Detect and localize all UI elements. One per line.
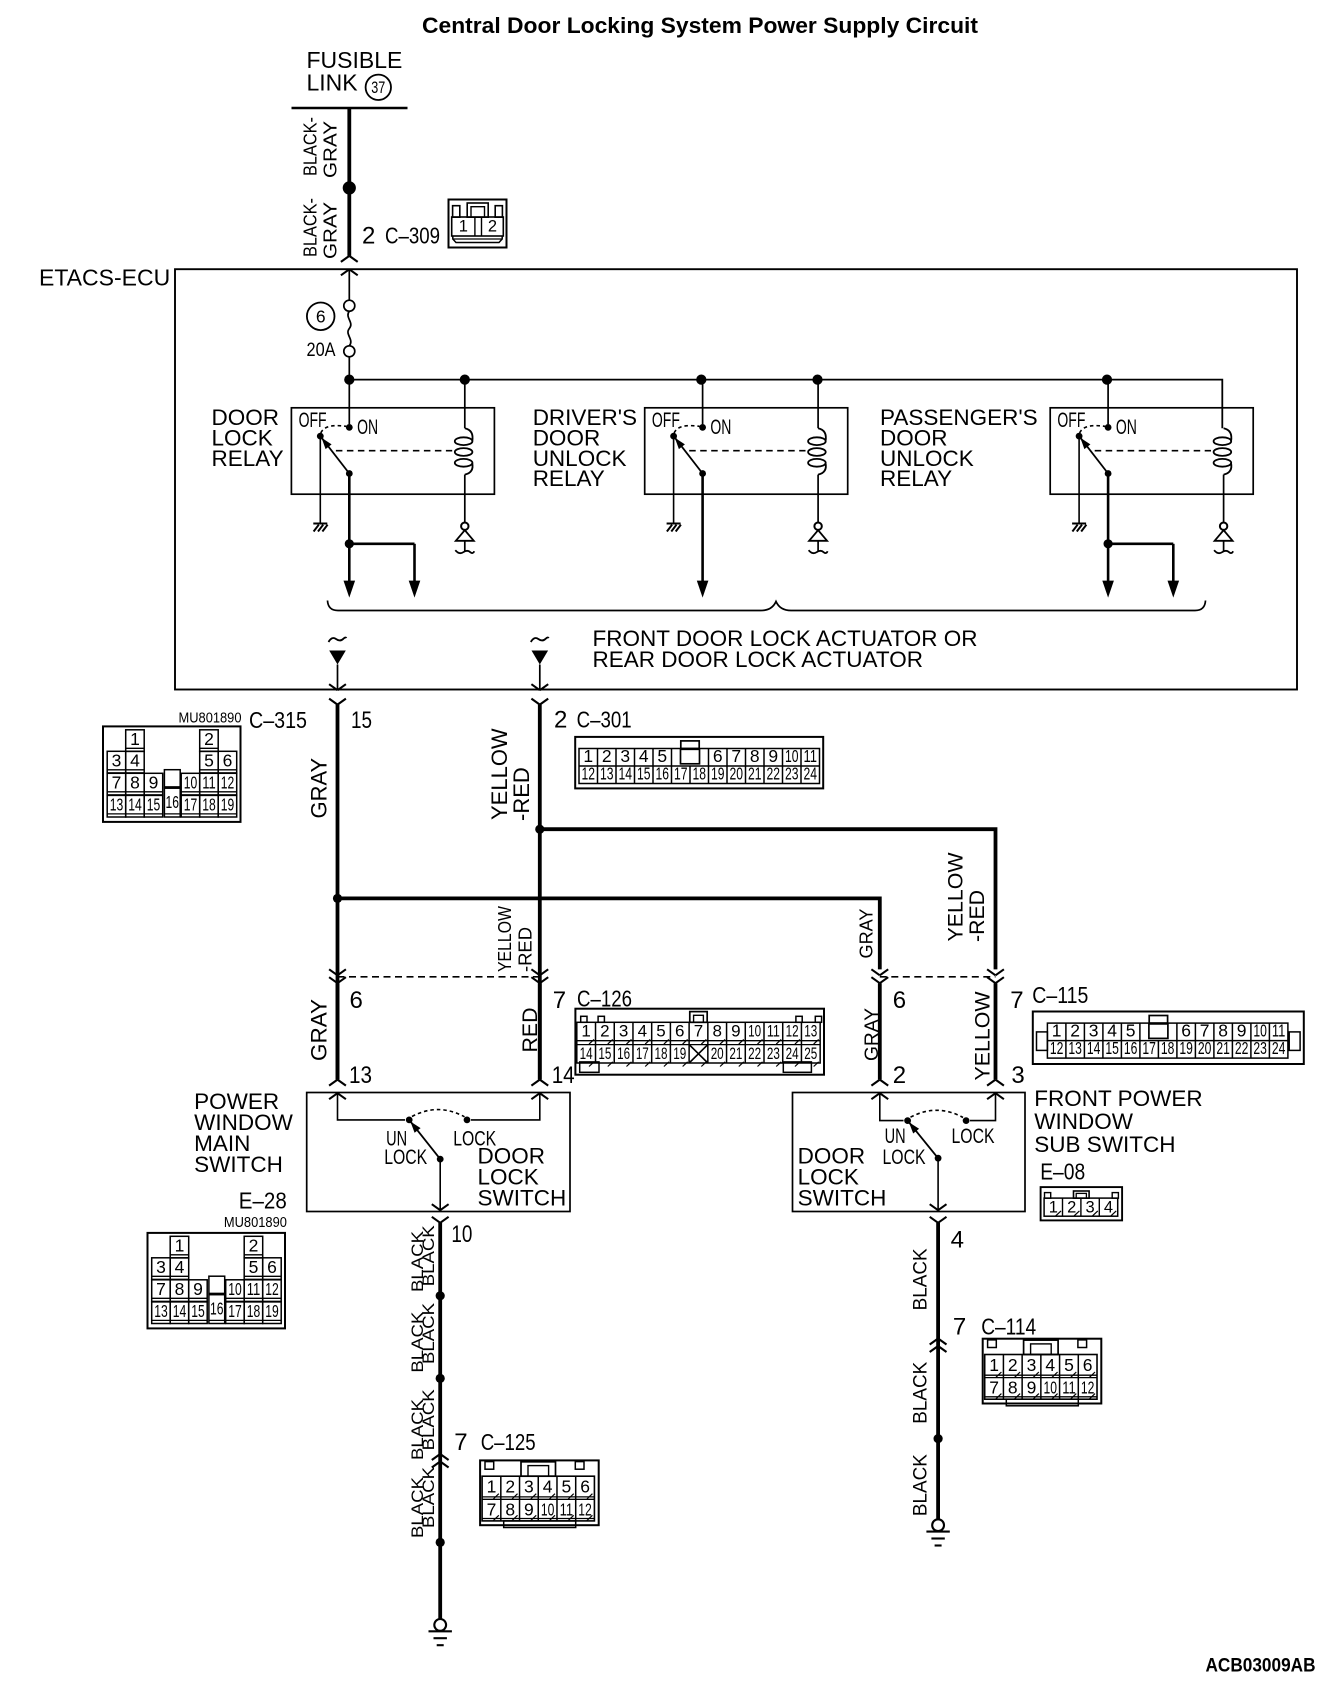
svg-text:24: 24 xyxy=(786,1044,799,1063)
svg-text:OFF: OFF xyxy=(299,409,327,432)
svg-text:5: 5 xyxy=(656,1022,665,1041)
relay2 switch arm xyxy=(670,433,706,477)
svg-text:19: 19 xyxy=(265,1301,279,1321)
junction: right ground wire xyxy=(934,1434,943,1443)
relay3 coil xyxy=(1214,428,1232,474)
svg-text:22: 22 xyxy=(767,764,781,784)
svg-text:15: 15 xyxy=(191,1301,205,1321)
connector crossing out of ETACS-ECU (gray) xyxy=(329,684,346,704)
svg-text:6: 6 xyxy=(316,307,326,327)
svg-text:LOCK: LOCK xyxy=(952,1125,995,1148)
svg-text:21: 21 xyxy=(1216,1038,1230,1058)
svg-text:GRAY: GRAY xyxy=(307,999,332,1061)
svg-text:13: 13 xyxy=(600,764,614,784)
svg-text:20: 20 xyxy=(711,1044,724,1063)
svg-text:13: 13 xyxy=(1068,1038,1082,1058)
svg-text:17: 17 xyxy=(674,764,688,784)
wire: bus to relay2 coil xyxy=(817,380,819,429)
svg-text:-RED: -RED xyxy=(509,767,534,821)
label: connector C-315 xyxy=(249,707,307,733)
connector crossing out of ETACS-ECU (yellow-red) xyxy=(531,684,548,704)
svg-text:2: 2 xyxy=(249,1236,259,1256)
main switch internal wires xyxy=(338,1093,540,1120)
label: MU801890 (E-28) xyxy=(224,1215,287,1231)
svg-text:7: 7 xyxy=(989,1378,999,1398)
svg-text:12: 12 xyxy=(578,1499,592,1519)
label: UN LOCK (sub) xyxy=(883,1125,926,1169)
label: front/rear door lock actuator xyxy=(593,626,978,672)
svg-text:SWITCH: SWITCH xyxy=(478,1186,567,1211)
svg-text:9: 9 xyxy=(193,1279,203,1299)
svg-text:YELLOW: YELLOW xyxy=(945,852,968,941)
relay1 ON label xyxy=(357,416,378,439)
ground: relay1 internal xyxy=(313,524,327,532)
relay3 dashed link to coil xyxy=(1095,450,1211,452)
svg-text:10: 10 xyxy=(541,1499,555,1519)
svg-text:4: 4 xyxy=(1045,1355,1055,1375)
svg-text:4: 4 xyxy=(1104,1199,1113,1217)
wire color labels BLACK (left pair 4) xyxy=(409,1467,438,1538)
connector C-309 icon xyxy=(449,200,507,248)
svg-text:2: 2 xyxy=(362,223,375,250)
main switch dashed arc xyxy=(412,1110,465,1117)
relay2 dashed throw arc xyxy=(674,426,700,433)
sub switch arm xyxy=(904,1117,941,1161)
svg-text:7: 7 xyxy=(156,1279,166,1299)
wire: relay2 pivot to internal ground xyxy=(673,436,675,523)
label: pin 7 (C-126) xyxy=(553,987,566,1014)
label: pin 6 (C-126) xyxy=(350,987,363,1014)
svg-text:5: 5 xyxy=(561,1477,571,1497)
svg-text:4: 4 xyxy=(130,751,140,771)
svg-text:RELAY: RELAY xyxy=(880,466,952,491)
ETACS-ECU box xyxy=(175,269,1297,689)
svg-text:YELLOW: YELLOW xyxy=(495,906,515,972)
relay2 coil xyxy=(808,428,826,474)
svg-text:2: 2 xyxy=(204,729,214,749)
svg-text:5: 5 xyxy=(204,751,214,771)
svg-text:7: 7 xyxy=(112,773,122,793)
svg-text:7: 7 xyxy=(553,987,566,1014)
wire color label GRAY (below C-115) xyxy=(862,1008,883,1061)
connector C-115 pin map xyxy=(1033,1012,1304,1065)
svg-text:10: 10 xyxy=(748,1022,761,1041)
junction: relay1 output xyxy=(345,539,354,548)
svg-text:LOCK: LOCK xyxy=(384,1146,427,1169)
svg-text:13: 13 xyxy=(804,1022,817,1041)
svg-text:MU801890: MU801890 xyxy=(179,711,242,727)
connector crossing at dashed boundary x=539.8 xyxy=(531,969,548,983)
wire: relay3 actuator arrow A xyxy=(1102,544,1114,598)
svg-text:20: 20 xyxy=(1198,1038,1212,1058)
svg-text:GRAY: GRAY xyxy=(321,202,341,259)
svg-text:15: 15 xyxy=(147,795,161,815)
main switch UN LOCK / LOCK contacts + arm xyxy=(406,1117,444,1163)
svg-text:6: 6 xyxy=(223,751,233,771)
svg-text:RELAY: RELAY xyxy=(212,446,284,471)
svg-text:C–114: C–114 xyxy=(981,1314,1036,1340)
svg-text:6: 6 xyxy=(675,1022,684,1041)
label: E-28 xyxy=(239,1188,287,1214)
svg-text:11: 11 xyxy=(767,1022,780,1041)
wire color label YELLOW (below C-115) xyxy=(972,991,995,1080)
svg-text:2: 2 xyxy=(893,1062,906,1089)
svg-text:C–309: C–309 xyxy=(385,223,440,249)
svg-text:BLACK: BLACK xyxy=(911,1454,932,1516)
svg-text:7: 7 xyxy=(953,1314,966,1341)
svg-text:14: 14 xyxy=(580,1044,593,1063)
relay3 switch arm xyxy=(1076,433,1112,477)
ground: relay1 coil (body) xyxy=(455,475,474,554)
ground: relay2 coil (body) xyxy=(809,475,828,554)
junction: battery feed splice xyxy=(343,181,356,194)
relay3 ON contact dot xyxy=(1105,424,1112,431)
svg-text:2: 2 xyxy=(554,707,567,734)
relay1 dashed throw arc xyxy=(321,426,347,433)
wire color label YELLOW-RED xyxy=(487,728,534,821)
relay box: DOOR LOCK RELAY xyxy=(291,408,494,494)
svg-text:Central Door Locking System Po: Central Door Locking System Power Supply… xyxy=(422,13,979,38)
label: pin 3 (sub) xyxy=(1011,1062,1024,1089)
title xyxy=(422,13,979,38)
svg-text:YELLOW: YELLOW xyxy=(972,991,995,1080)
svg-text:-RED: -RED xyxy=(966,890,989,942)
label: door lock switch (sub) xyxy=(798,1144,887,1211)
svg-text:24: 24 xyxy=(804,764,818,784)
pin 2 label / connector C-309 name xyxy=(362,223,440,250)
svg-text:UN: UN xyxy=(885,1125,906,1148)
svg-text:REAR DOOR LOCK ACTUATOR: REAR DOOR LOCK ACTUATOR xyxy=(593,647,923,672)
svg-text:19: 19 xyxy=(221,795,235,815)
fusible link 37 label xyxy=(307,47,403,100)
wire: YELLOW-RED branch to sub switch xyxy=(540,829,996,969)
wire: to door lock actuator (yellow-red) with transfer symbol xyxy=(531,638,549,690)
connector crossing at dashed boundary x=337.5 xyxy=(329,969,346,983)
svg-text:17: 17 xyxy=(636,1044,649,1063)
svg-text:8: 8 xyxy=(505,1499,515,1519)
svg-text:17: 17 xyxy=(1142,1038,1156,1058)
wire color label BLACK (right 3) xyxy=(911,1454,932,1516)
wire: battery feed (thick) xyxy=(347,108,351,256)
svg-text:9: 9 xyxy=(149,773,159,793)
svg-text:RELAY: RELAY xyxy=(533,466,605,491)
junction: left ground wire B xyxy=(436,1374,445,1383)
relay3 label xyxy=(880,405,1038,491)
svg-text:10: 10 xyxy=(184,773,198,793)
junction dots on bus xyxy=(344,375,1112,385)
relay2 ON label xyxy=(710,416,731,439)
svg-text:21: 21 xyxy=(748,764,762,784)
svg-text:16: 16 xyxy=(210,1298,224,1318)
svg-text:2: 2 xyxy=(1008,1355,1018,1375)
relay3 ON label xyxy=(1116,416,1137,439)
svg-text:2: 2 xyxy=(600,1022,609,1041)
label: pin 4 xyxy=(951,1227,964,1254)
svg-text:14: 14 xyxy=(173,1301,187,1321)
wire: bus to relay1 switch xyxy=(348,380,350,425)
svg-text:4: 4 xyxy=(638,1022,647,1041)
svg-text:3: 3 xyxy=(112,751,122,771)
svg-text:15: 15 xyxy=(598,1044,611,1063)
svg-text:15: 15 xyxy=(351,707,372,734)
wire color label GRAY (small, right) xyxy=(857,909,877,959)
label: pin 2 (sub) xyxy=(893,1062,906,1089)
svg-text:3: 3 xyxy=(524,1477,534,1497)
wire: relay3 actuator arrow B xyxy=(1168,544,1180,598)
svg-text:23: 23 xyxy=(767,1044,780,1063)
label: connector C-301 xyxy=(577,707,632,733)
svg-text:GRAY: GRAY xyxy=(306,757,331,818)
wire: relay1 pivot to internal ground xyxy=(319,436,321,523)
box: power window main switch xyxy=(307,1093,570,1212)
sub switch dashed arc xyxy=(911,1110,964,1117)
svg-text:9: 9 xyxy=(524,1499,534,1519)
relay3 dashed throw arc xyxy=(1080,426,1106,433)
wire color label BLACK-GRAY (lower) xyxy=(301,198,341,259)
connector crossing at dashed boundary x=879.8 xyxy=(871,969,888,983)
fusible link bus bar xyxy=(292,107,408,110)
svg-text:1: 1 xyxy=(989,1355,999,1375)
relay2 label xyxy=(533,405,637,491)
svg-text:16: 16 xyxy=(1124,1038,1138,1058)
svg-text:E–08: E–08 xyxy=(1040,1159,1085,1185)
wire: main switch output xyxy=(439,1159,441,1211)
fuse 6 (20A) xyxy=(307,300,355,361)
svg-text:BLACK: BLACK xyxy=(911,1248,932,1310)
connector C-115 boundary (dashed) xyxy=(880,976,996,978)
svg-text:C–126: C–126 xyxy=(577,986,632,1012)
svg-text:18: 18 xyxy=(1161,1038,1175,1058)
svg-text:7: 7 xyxy=(487,1499,497,1519)
relay1 dashed link to coil xyxy=(336,450,452,452)
wire: relay3 output branch xyxy=(1108,542,1173,545)
svg-text:4: 4 xyxy=(543,1477,553,1497)
relay1 ON contact dot xyxy=(346,424,353,431)
svg-text:ON: ON xyxy=(357,416,378,439)
brace: actuators group xyxy=(328,601,1206,611)
label: pin 2 (C-301) xyxy=(554,707,567,734)
svg-text:GRAY: GRAY xyxy=(857,909,877,959)
svg-text:1: 1 xyxy=(130,729,140,749)
wire color label YELLOW-RED (right) xyxy=(945,852,990,942)
relay2 dashed link to coil xyxy=(689,450,805,452)
svg-text:C–115: C–115 xyxy=(1032,982,1088,1008)
svg-text:8: 8 xyxy=(1008,1378,1018,1398)
svg-text:24: 24 xyxy=(1272,1038,1286,1058)
label: pin 7 (C-114) xyxy=(953,1314,966,1341)
svg-text:ETACS-ECU: ETACS-ECU xyxy=(39,265,170,291)
wire: relay1 actuator arrow B xyxy=(409,544,421,598)
svg-text:MU801890: MU801890 xyxy=(224,1215,287,1231)
connector E-08 pin map xyxy=(1041,1187,1123,1220)
svg-text:1: 1 xyxy=(175,1236,185,1256)
wire: relay1 actuator arrow A xyxy=(344,544,356,598)
relay3 OFF label xyxy=(1057,409,1085,432)
relay box: DRIVER'S DOOR UNLOCK RELAY xyxy=(645,408,848,494)
ground: left body ground xyxy=(429,1619,452,1645)
svg-text:6: 6 xyxy=(1083,1355,1093,1375)
label: pin 10 xyxy=(451,1221,472,1248)
svg-text:BLACK-: BLACK- xyxy=(301,198,321,257)
junction: left ground wire C xyxy=(436,1538,445,1547)
svg-text:11: 11 xyxy=(1062,1378,1076,1398)
wire color label GRAY (below C-126) xyxy=(307,999,332,1061)
connector C-125 pin map xyxy=(480,1460,599,1527)
svg-text:2: 2 xyxy=(488,218,497,236)
wire: fuse to bus xyxy=(348,357,350,380)
wire color label BLACK-GRAY (upper) xyxy=(301,117,341,178)
svg-text:BLACK: BLACK xyxy=(911,1361,932,1423)
label: E-08 xyxy=(1040,1159,1085,1185)
svg-text:2: 2 xyxy=(505,1477,515,1497)
wire color labels BLACK (left pair 2) xyxy=(409,1303,438,1373)
svg-text:12: 12 xyxy=(1050,1038,1064,1058)
connector crossing into ETACS-ECU (C-309) xyxy=(341,256,358,300)
svg-text:3: 3 xyxy=(619,1022,628,1041)
svg-text:5: 5 xyxy=(1064,1355,1074,1375)
svg-text:4: 4 xyxy=(175,1257,185,1277)
ETACS-ECU label xyxy=(39,265,170,291)
svg-text:22: 22 xyxy=(1235,1038,1249,1058)
svg-text:-RED: -RED xyxy=(516,927,536,972)
junction: left ground wire A xyxy=(436,1291,445,1300)
document number xyxy=(1206,1654,1316,1676)
label: UN LOCK (main) xyxy=(384,1127,427,1169)
svg-text:18: 18 xyxy=(693,764,707,784)
svg-text:6: 6 xyxy=(580,1477,590,1497)
label: power window main switch xyxy=(194,1089,293,1177)
wire: YELLOW-RED from C-301 pin2 xyxy=(538,705,542,1080)
box: front power window sub switch xyxy=(793,1093,1026,1212)
wire: relay1 output to junction xyxy=(348,474,351,544)
wire: relay2 output arrow xyxy=(697,474,709,598)
wire: relay3 pivot to internal ground xyxy=(1078,436,1080,523)
svg-text:19: 19 xyxy=(673,1044,686,1063)
svg-text:BLACK: BLACK xyxy=(420,1225,438,1286)
label: connector C-125 xyxy=(481,1429,536,1455)
svg-text:18: 18 xyxy=(202,795,216,815)
svg-text:ON: ON xyxy=(1116,416,1137,439)
wire: bus to relay2 switch xyxy=(702,380,704,425)
label: pin 6 (C-115) xyxy=(893,987,906,1014)
label: pin 14 xyxy=(552,1062,575,1089)
label: MU801890 (C-315) xyxy=(179,711,242,727)
svg-text:LINK: LINK xyxy=(307,70,359,96)
svg-text:C–125: C–125 xyxy=(481,1429,536,1455)
svg-text:17: 17 xyxy=(228,1301,242,1321)
wire: relay1 output branch xyxy=(349,542,414,545)
svg-text:SWITCH: SWITCH xyxy=(798,1186,887,1211)
svg-text:10: 10 xyxy=(451,1221,472,1248)
svg-text:OFF: OFF xyxy=(652,409,680,432)
label: door lock switch (main) xyxy=(478,1144,567,1211)
label: pin 15 (C-315) xyxy=(351,707,372,734)
svg-text:OFF: OFF xyxy=(1057,409,1085,432)
label: front power window sub switch xyxy=(1034,1086,1202,1157)
relay2 ON contact dot xyxy=(699,424,706,431)
label: pin 7 (C-125) xyxy=(454,1429,467,1456)
wire: BLACK to ground (left) xyxy=(438,1223,442,1619)
svg-text:25: 25 xyxy=(804,1044,817,1063)
svg-text:19: 19 xyxy=(1179,1038,1193,1058)
svg-text:ON: ON xyxy=(710,416,731,439)
label: connector C-126 xyxy=(577,986,632,1012)
svg-text:11: 11 xyxy=(247,1279,261,1299)
svg-text:ACB03009AB: ACB03009AB xyxy=(1206,1654,1316,1676)
svg-text:8: 8 xyxy=(175,1279,185,1299)
connector crossing at dashed boundary x=995.5 xyxy=(987,969,1004,983)
ground: relay3 internal xyxy=(1072,524,1086,532)
wire: GRAY from C-315 pin15 xyxy=(336,705,340,1080)
svg-text:7: 7 xyxy=(454,1429,467,1456)
svg-text:BLACK: BLACK xyxy=(420,1467,438,1528)
svg-text:10: 10 xyxy=(1043,1378,1057,1398)
wire into switch box x=995.5 xyxy=(987,983,1004,1099)
connector C-315 pin map xyxy=(103,726,241,822)
wire into switch box x=879.8 xyxy=(871,983,888,1099)
inline connector C-125 symbol xyxy=(432,1454,449,1468)
sub switch LOCK contact dot xyxy=(963,1117,970,1124)
inline connector C-114 symbol xyxy=(930,1339,947,1353)
relay box: PASSENGER'S DOOR UNLOCK RELAY xyxy=(1050,408,1253,494)
svg-text:9: 9 xyxy=(1027,1378,1037,1398)
wire: sub switch output xyxy=(937,1158,939,1211)
svg-text:GRAY: GRAY xyxy=(321,121,341,178)
label: LOCK (main) xyxy=(453,1127,496,1150)
svg-text:12: 12 xyxy=(265,1279,279,1299)
label: connector C-115 xyxy=(1032,982,1088,1008)
svg-text:8: 8 xyxy=(130,773,140,793)
connector crossing out of main switch xyxy=(432,1204,449,1223)
wire: bus to relay1 coil xyxy=(464,380,466,429)
wire color label GRAY xyxy=(306,757,331,818)
svg-text:LOCK: LOCK xyxy=(883,1146,926,1169)
svg-text:WINDOW: WINDOW xyxy=(1034,1109,1133,1134)
svg-text:1: 1 xyxy=(581,1022,590,1041)
svg-text:37: 37 xyxy=(371,79,385,97)
svg-text:10: 10 xyxy=(228,1279,242,1299)
junction: GRAY branch xyxy=(333,894,342,903)
connector crossing out of sub switch xyxy=(930,1204,947,1223)
svg-text:11: 11 xyxy=(560,1499,574,1519)
wire color label BLACK (right 1) xyxy=(911,1248,932,1310)
connector C-301 pin map xyxy=(575,737,823,789)
svg-text:15: 15 xyxy=(1105,1038,1119,1058)
svg-text:18: 18 xyxy=(247,1301,261,1321)
wire color label YELLOW-RED (small, left) xyxy=(495,906,536,972)
svg-text:16: 16 xyxy=(617,1044,630,1063)
connector C-114 pin map xyxy=(983,1339,1102,1406)
svg-text:6: 6 xyxy=(267,1257,277,1277)
wire into switch box x=337.5 xyxy=(329,983,346,1099)
svg-text:17: 17 xyxy=(184,795,198,815)
main switch LOCK contact dot xyxy=(464,1117,471,1124)
ground: relay3 coil (body) xyxy=(1214,475,1233,554)
svg-text:13: 13 xyxy=(154,1301,168,1321)
sub switch internal wires xyxy=(880,1093,996,1120)
svg-text:4: 4 xyxy=(951,1227,964,1254)
svg-text:2: 2 xyxy=(1067,1199,1076,1217)
svg-text:18: 18 xyxy=(655,1044,668,1063)
svg-text:13: 13 xyxy=(349,1062,372,1089)
svg-text:6: 6 xyxy=(893,987,906,1014)
svg-text:3: 3 xyxy=(1086,1199,1095,1217)
ground: right body ground xyxy=(926,1519,949,1545)
junction: relay3 output xyxy=(1104,539,1113,548)
svg-text:14: 14 xyxy=(128,795,142,815)
wire color label BLACK (right 2) xyxy=(911,1361,932,1423)
wire color labels BLACK (left pair 1) xyxy=(409,1225,438,1292)
